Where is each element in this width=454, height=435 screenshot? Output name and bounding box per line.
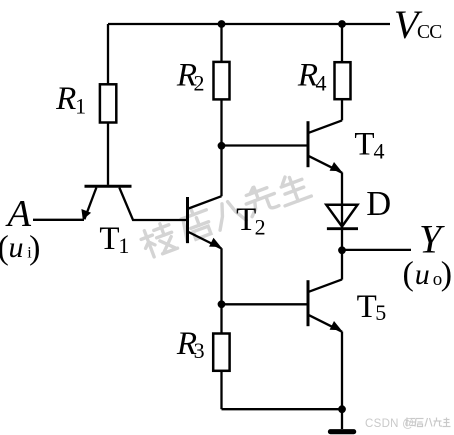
svg-text:): ) [441,255,452,292]
svg-text:T: T [357,289,377,325]
svg-text:2: 2 [194,71,205,96]
svg-text:(: ( [403,255,414,292]
svg-text:u: u [9,231,24,264]
svg-text:3: 3 [194,338,205,363]
svg-text:u: u [415,258,430,291]
svg-text:4: 4 [316,71,327,96]
svg-text:(: ( [0,229,9,266]
svg-text:1: 1 [75,94,86,119]
svg-text:D: D [366,185,391,223]
svg-text:T: T [354,127,374,163]
svg-text:2: 2 [255,215,266,240]
svg-text:5: 5 [375,300,386,325]
svg-text:4: 4 [374,139,385,164]
svg-text:R: R [55,81,76,117]
svg-text:): ) [29,229,40,266]
svg-text:1: 1 [118,233,129,258]
svg-text:CC: CC [417,22,442,43]
svg-text:T: T [99,221,119,257]
svg-text:T: T [236,202,256,238]
